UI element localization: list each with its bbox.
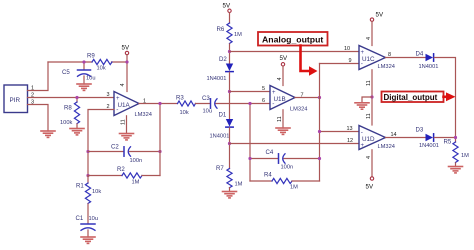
- capacitor C3: [202, 95, 217, 115]
- resistor R7: [216, 165, 243, 192]
- wire top rail: [48, 61, 92, 63]
- svg-text:Digital_output: Digital_output: [384, 93, 438, 102]
- U1C pin11 down to U1D pin11: [371, 70, 373, 125]
- arrow Analog_output: [301, 46, 318, 76]
- node pin7 junction: [318, 96, 321, 99]
- svg-text:LM324: LM324: [135, 112, 152, 118]
- wire U1B pin6 vertical to C4/R4: [249, 104, 251, 182]
- svg-text:5V: 5V: [280, 55, 288, 62]
- power 5V for R6: [223, 3, 232, 13]
- svg-text:C2: C2: [111, 144, 119, 151]
- wire PIR pin3 down: [28, 105, 49, 132]
- wire D1 to rail/R7: [229, 128, 231, 169]
- svg-text:5: 5: [262, 86, 265, 92]
- svg-text:+: +: [272, 90, 276, 96]
- svg-text:10u: 10u: [203, 109, 213, 115]
- wire analog node vertical: [319, 64, 321, 182]
- svg-text:-: -: [361, 61, 363, 68]
- svg-text:LM324: LM324: [378, 64, 395, 70]
- wire pin9 connection: [320, 63, 360, 65]
- resistor R2: [88, 166, 160, 186]
- svg-text:3: 3: [107, 92, 110, 98]
- svg-text:PIR: PIR: [10, 97, 21, 104]
- diode D3: [416, 127, 439, 150]
- ground below R5: [449, 167, 463, 173]
- PIR sensor module: [4, 85, 28, 113]
- op-amp U1C: [359, 46, 395, 71]
- node output junction: [158, 102, 161, 105]
- svg-text:10k: 10k: [92, 189, 101, 195]
- op-amp U1A: [114, 92, 152, 119]
- svg-text:10: 10: [344, 46, 350, 52]
- U1A pin 11 to ground: [126, 116, 128, 134]
- svg-text:6: 6: [262, 98, 265, 104]
- ground below R8: [70, 129, 84, 135]
- svg-text:+: +: [361, 50, 365, 56]
- diode D1: [210, 112, 234, 140]
- node C4 left: [248, 157, 251, 160]
- svg-text:R7: R7: [216, 165, 224, 172]
- wire lower rail to U1D pin12: [230, 143, 360, 145]
- svg-text:4: 4: [120, 83, 126, 86]
- wire feedback vertical from output: [159, 104, 161, 176]
- svg-text:1N4001: 1N4001: [419, 143, 439, 149]
- diode D4: [416, 51, 439, 71]
- capacitor C5: [62, 62, 96, 84]
- svg-text:1M: 1M: [235, 182, 243, 188]
- svg-text:U1B: U1B: [274, 96, 286, 103]
- svg-text:5V: 5V: [122, 45, 130, 52]
- svg-text:1N4001: 1N4001: [419, 64, 439, 70]
- resistor R8: [60, 98, 80, 129]
- svg-text:U1A: U1A: [118, 102, 131, 109]
- resistor R6: [217, 13, 243, 64]
- wire D2 to D1: [229, 72, 231, 119]
- power 5V below U1D: [366, 177, 374, 191]
- op-amp U1D (flipped: pin11 top, pin4 bottom): [359, 126, 395, 151]
- arrow Digital_output: [444, 92, 456, 101]
- svg-text:4: 4: [366, 37, 372, 40]
- svg-text:-: -: [272, 101, 274, 108]
- svg-text:R9: R9: [87, 53, 95, 60]
- ground below C5: [77, 84, 91, 90]
- svg-text:D3: D3: [416, 127, 424, 134]
- svg-text:C1: C1: [76, 215, 84, 222]
- power 5V for U1C: [370, 12, 384, 22]
- wire analog rail to U1C pin10: [230, 51, 360, 53]
- node U1B pin5 junction: [228, 90, 231, 93]
- svg-text:Analog_output: Analog_output: [262, 35, 323, 45]
- node pin13 junction: [318, 130, 321, 133]
- svg-text:+: +: [116, 96, 120, 102]
- svg-text:R2: R2: [117, 166, 125, 173]
- svg-text:1N4001: 1N4001: [210, 134, 230, 140]
- ground shared U1C/U1D: [355, 103, 369, 109]
- svg-text:13: 13: [347, 126, 353, 132]
- node C2 right: [158, 150, 161, 153]
- wire U1B pin7 to node: [295, 97, 320, 99]
- node analog rail left: [228, 50, 231, 53]
- svg-text:C5: C5: [62, 69, 70, 76]
- svg-text:4: 4: [366, 156, 372, 159]
- capacitor C2: [88, 144, 160, 165]
- resistor R5: [444, 139, 470, 167]
- svg-text:10k: 10k: [97, 66, 106, 72]
- ground below C1: [81, 237, 95, 243]
- wire U1D pin14 to D3: [386, 137, 426, 139]
- power 5V for U1A: [122, 45, 130, 55]
- svg-text:10u: 10u: [89, 216, 99, 222]
- op-amp U1B: [270, 86, 307, 113]
- svg-text:11: 11: [366, 113, 372, 119]
- svg-text:11: 11: [366, 80, 372, 86]
- svg-text:9: 9: [349, 58, 352, 64]
- svg-text:D2: D2: [219, 56, 227, 63]
- svg-text:LM324: LM324: [378, 144, 395, 150]
- capacitor C4: [250, 149, 320, 171]
- U1D pin4 to 5V below: [371, 150, 373, 177]
- wire 5V to U1B pin4: [282, 67, 284, 86]
- resistor R1: [76, 176, 101, 224]
- svg-text:-: -: [361, 129, 363, 136]
- svg-text:10k: 10k: [180, 110, 189, 116]
- svg-text:+: +: [361, 143, 365, 149]
- capacitor C1: [76, 215, 99, 237]
- resistor R9: [87, 53, 112, 72]
- svg-text:1M: 1M: [132, 180, 140, 186]
- wire PIR pin2 to U1A pin3: [28, 97, 115, 99]
- svg-text:R6: R6: [217, 26, 225, 33]
- node C2 left: [86, 150, 89, 153]
- svg-text:1N4001: 1N4001: [207, 76, 227, 82]
- U1B pin 11 to ground: [282, 110, 284, 128]
- ground below R7: [223, 192, 237, 198]
- svg-text:LM324: LM324: [290, 107, 307, 113]
- wire pin13 connection: [320, 131, 360, 133]
- wire U1A output row: [139, 103, 178, 105]
- svg-text:5V: 5V: [366, 184, 374, 191]
- svg-text:D4: D4: [416, 51, 424, 58]
- resistor R4: [250, 172, 320, 191]
- wire PIR pin1 to top rail: [28, 62, 49, 91]
- svg-text:11: 11: [277, 116, 283, 122]
- diode D2: [207, 56, 234, 82]
- wire 5V to U1A pin4: [126, 55, 128, 92]
- node lower rail left: [228, 142, 231, 145]
- wire C3 to U1B pin6: [216, 103, 270, 105]
- svg-text:-: -: [116, 107, 118, 114]
- svg-text:R5: R5: [444, 139, 452, 146]
- node pin6 junction: [248, 102, 251, 105]
- svg-text:5V: 5V: [223, 3, 231, 10]
- wire to shared ground: [362, 97, 372, 103]
- svg-text:C3: C3: [202, 95, 210, 102]
- svg-text:1M: 1M: [461, 153, 469, 159]
- node R9/5V junction: [125, 60, 128, 63]
- svg-text:10u: 10u: [86, 76, 96, 82]
- svg-text:5V: 5V: [376, 12, 384, 19]
- svg-text:R4: R4: [264, 172, 272, 179]
- power 5V for U1B: [280, 55, 288, 66]
- resistor R3: [176, 95, 196, 117]
- svg-text:4: 4: [277, 77, 283, 80]
- svg-text:U1C: U1C: [362, 56, 375, 63]
- wire 5V to U1C pin4: [371, 22, 373, 46]
- node R8 top: [75, 96, 78, 99]
- svg-text:D1: D1: [219, 112, 227, 119]
- node D3/R5 junction: [454, 136, 457, 139]
- svg-text:100n: 100n: [281, 165, 294, 171]
- ground below U1B: [276, 128, 290, 134]
- svg-text:12: 12: [347, 138, 353, 144]
- node R2/R1 left: [86, 174, 89, 177]
- svg-text:100n: 100n: [130, 158, 143, 164]
- svg-text:R8: R8: [64, 105, 72, 112]
- svg-text:C4: C4: [266, 149, 274, 156]
- svg-text:R3: R3: [176, 95, 184, 102]
- label Digital_output: [382, 92, 444, 103]
- svg-text:100k: 100k: [60, 120, 72, 126]
- svg-text:1M: 1M: [234, 32, 242, 38]
- node C5 tap: [82, 60, 85, 63]
- wire U1A pin2 feedback: [88, 110, 114, 176]
- wire U1C pin8 to D4: [386, 57, 426, 59]
- svg-text:R1: R1: [76, 183, 84, 190]
- wire to U1B pin5: [230, 91, 271, 93]
- node shared ground junction: [370, 95, 373, 98]
- ground below U1A: [120, 134, 134, 140]
- ground below PIR pin3: [41, 131, 55, 137]
- svg-text:1M: 1M: [290, 185, 298, 191]
- wire D3 to right vertical: [434, 137, 455, 139]
- svg-text:11: 11: [121, 119, 127, 125]
- label Analog_output: [258, 32, 328, 46]
- wire D4 to right vertical: [434, 58, 455, 143]
- node C4 right: [318, 157, 321, 160]
- wire R3 to C3: [196, 103, 211, 105]
